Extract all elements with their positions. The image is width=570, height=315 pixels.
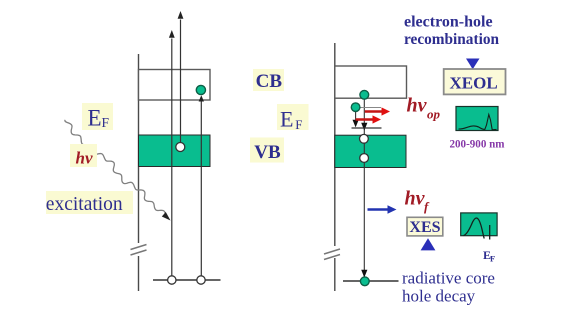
left CB band box: [139, 70, 211, 101]
right axis break: [324, 249, 340, 260]
right hole in VB (white circle): [360, 154, 369, 163]
XES box: [407, 217, 443, 236]
hv_op label (red): [407, 95, 441, 122]
left core hole circle 2: [197, 276, 205, 284]
right arrowhead onto core hole: [361, 270, 367, 278]
XEOL spectrum box (green): [456, 107, 498, 131]
right core level line: [343, 280, 399, 282]
left VB band box (green): [139, 135, 211, 167]
right energy axis: [334, 43, 336, 291]
left core hole circle 1: [168, 276, 176, 284]
photon squiggle (incoming x-ray): [65, 120, 165, 217]
XES spectrum box (green): [461, 213, 497, 240]
defect level line: [352, 127, 382, 129]
svg-text:hv: hv: [405, 187, 426, 209]
svg-text:F: F: [102, 115, 110, 130]
svg-text:E: E: [280, 106, 293, 131]
E_F label center: [277, 104, 309, 132]
svg-text:200-900 nm: 200-900 nm: [450, 137, 505, 151]
left core level line: [153, 279, 221, 281]
left tall photoemission arrow from VB hole: [178, 11, 184, 147]
200-900 nm label: [450, 137, 505, 151]
hv_f label (red): [405, 187, 431, 214]
right arrowhead onto defect level: [361, 123, 367, 131]
right trapped electron (green circle): [351, 103, 360, 112]
svg-text:hole decay: hole decay: [402, 287, 476, 306]
excitation label: [46, 191, 133, 215]
left hole in VB (white circle): [176, 143, 185, 152]
left photoemission arrow from core level: [169, 30, 175, 280]
svg-text:op: op: [427, 107, 441, 122]
svg-text:f: f: [424, 199, 430, 214]
hv label left (red): [70, 144, 97, 168]
left excitation arrow core to CB: [199, 95, 204, 280]
thin level line from trapped electron: [360, 107, 381, 109]
svg-text:VB: VB: [254, 142, 281, 163]
blue triangle pointer up to XES: [421, 238, 436, 250]
right core electron (green circle): [360, 277, 369, 286]
red optical transition arrow 1: [365, 107, 390, 115]
svg-text:hv: hv: [407, 95, 428, 117]
svg-text:recombination: recombination: [404, 31, 499, 48]
CB label: [253, 69, 284, 92]
svg-text:radiative core: radiative core: [402, 269, 495, 288]
XEOL box: [444, 69, 506, 94]
blue hv_f emission arrow: [368, 205, 397, 214]
E_F small label under XES spectrum: [483, 248, 495, 264]
svg-text:F: F: [295, 117, 302, 132]
right long relaxation line CB to core: [363, 98, 365, 277]
right electron at CB edge (green circle): [360, 90, 369, 99]
right VB band box (green): [335, 135, 406, 167]
electron-hole recombination caption: [404, 14, 499, 49]
VB label: [250, 138, 284, 164]
svg-text:excitation: excitation: [46, 194, 123, 215]
E_F label left (yellow highlight): [82, 103, 113, 131]
photon squiggle arrowhead: [162, 212, 171, 221]
svg-text:electron-hole: electron-hole: [404, 14, 493, 31]
right hole at VB top (white circle): [360, 134, 369, 143]
svg-text:XES: XES: [409, 219, 440, 236]
svg-text:CB: CB: [256, 71, 283, 92]
left electron in CB (green circle): [196, 85, 205, 94]
radiative core hole decay caption: [402, 269, 495, 306]
red optical transition arrow 2: [356, 115, 381, 123]
svg-text:hv: hv: [76, 149, 93, 168]
svg-text:E: E: [88, 106, 102, 131]
left energy axis: [138, 54, 140, 291]
svg-text:XEOL: XEOL: [450, 74, 498, 93]
left axis break: [131, 245, 147, 256]
right short relaxation line from trapped electron: [353, 112, 359, 128]
right CB band box: [335, 66, 407, 98]
svg-text:F: F: [490, 253, 495, 263]
blue triangle pointer down to XEOL: [466, 59, 480, 70]
